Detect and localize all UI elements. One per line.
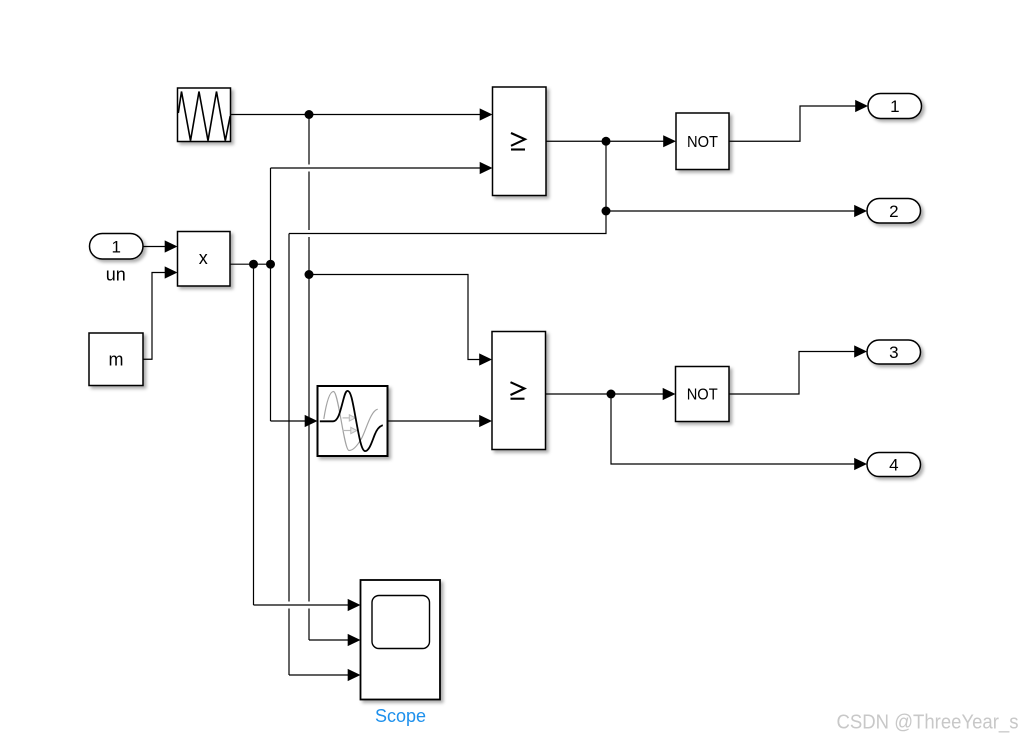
inport un (oval 1) (90, 234, 144, 260)
junction node on relational operator 2 output (607, 390, 616, 399)
outport 3 (867, 340, 921, 364)
svg-text:1: 1 (890, 97, 899, 116)
outport 2 (867, 199, 921, 224)
block: NOT 2 (logical operator) (676, 367, 730, 422)
wire: NOT 1 output to outport 1 (729, 106, 858, 141)
wire: relational operator 2 output branch down to outport 4 (611, 394, 857, 464)
svg-text:3: 3 (889, 343, 898, 362)
junction node on outport 2 branch (602, 207, 611, 216)
svg-text:CSDN @ThreeYear_s: CSDN @ThreeYear_s (837, 712, 1019, 734)
svg-text:NOT: NOT (687, 387, 718, 404)
black sine of subsystem icon (320, 391, 383, 451)
junction node on relational operator 1 output (602, 137, 611, 146)
wire arrowhead into relational operator 2 input 2 (479, 415, 492, 427)
block: subsystem with sine preview icon (318, 386, 388, 456)
junction node on sawtooth wire (305, 110, 314, 119)
svg-text:x: x (199, 248, 208, 268)
wire arrowhead into NOT 1 input (663, 135, 676, 147)
svg-text:2: 2 (889, 202, 898, 221)
outport 1 (868, 94, 922, 119)
svg-text:NOT: NOT (687, 134, 718, 151)
svg-text:Scope: Scope (375, 706, 426, 726)
wire arrowhead into product input 2 (165, 266, 178, 278)
wire arrowhead into scope input 3 (348, 669, 361, 681)
wire arrowhead into relational operator 1 input 1 (480, 108, 493, 120)
gray arrow 1 of subsystem icon (343, 415, 356, 421)
junction node on sawtooth vertical at y=274.5 (305, 270, 314, 279)
gray background sine of subsystem icon (324, 392, 378, 451)
block: relational operator 1 (>=) (493, 87, 547, 196)
wire arrowhead into outport 4 (854, 458, 867, 470)
wire: NOT 2 output to outport 3 (729, 352, 857, 395)
scope screen (372, 596, 430, 649)
wire: inport un to product input 1 (143, 246, 167, 248)
svg-text:4: 4 (889, 456, 898, 475)
wire: product output segment (230, 263, 271, 265)
junction node on product output 2 (266, 260, 275, 269)
wire: product output branch down to scope input 1 (x=253.5) (254, 264, 351, 605)
wire: branch to outport 2 (606, 210, 857, 212)
block: product x (178, 232, 231, 287)
wire arrowhead into scope input 2 (348, 634, 361, 646)
wire arrowhead into product input 1 (165, 240, 178, 252)
wire arrowhead into relational operator 1 input 2 (480, 162, 493, 174)
gray arrow 2 of subsystem icon (343, 427, 357, 433)
wire: relational operator 1 output branch down (x=606) then left and down to scope input 3 (289, 141, 606, 675)
wire arrowhead into outport 3 (854, 345, 867, 357)
wire arrowhead into outport 1 (855, 100, 868, 112)
outport 4 (867, 453, 921, 477)
block: repeating sequence (sawtooth source) (178, 88, 231, 142)
wire: constant m to product input 2 (143, 273, 167, 360)
wire: relational operator 1 output to NOT 1 input (546, 140, 666, 142)
wire arrowhead into outport 2 (854, 205, 867, 217)
wire arrowhead into NOT 2 input (663, 388, 676, 400)
wire: relational operator 2 output to NOT 2 input (546, 393, 666, 395)
svg-text:m: m (109, 350, 124, 370)
wire arrowhead into subsystem input (305, 415, 318, 427)
wire: subsystem output to relational operator 2 input 2 (388, 420, 482, 422)
svg-text:un: un (106, 265, 126, 285)
wire: sawtooth branch to relational operator 2 input 1 (309, 275, 482, 360)
block: scope (361, 580, 441, 700)
wire arrowhead into relational operator 2 input 1 (479, 353, 492, 365)
block: NOT 1 (logical operator) (676, 113, 729, 170)
block: constant m (89, 333, 143, 386)
wire: product output branch up to relational operator 1 input 2 and down to subsystem input (x=270.5) (271, 168, 483, 421)
wire: repeating sequence output to relational operator 1 input 1 (231, 114, 483, 116)
junction node on product output 1 (249, 260, 258, 269)
wire: vertical branch of sawtooth signal (x=309) down to node and scope input 2 (309, 115, 350, 641)
svg-text:1: 1 (111, 237, 120, 256)
block: relational operator 2 (>=) (492, 332, 546, 450)
wire arrowhead into scope input 1 (348, 599, 361, 611)
